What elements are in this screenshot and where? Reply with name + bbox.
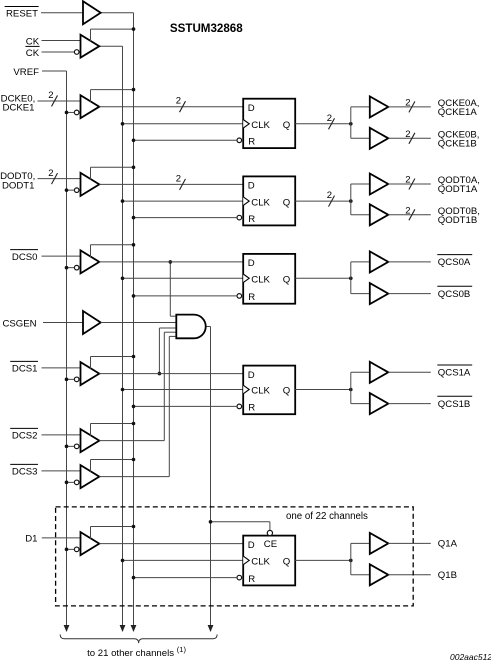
wire CK input — [42, 39, 81, 41]
wire D input to FF4 DCS1 register — [99, 373, 243, 375]
wire CSGEN buffer output to AND gate input 2 — [101, 322, 177, 324]
svg-text:QCKE1A: QCKE1A — [438, 107, 478, 118]
wire RESET input — [41, 12, 83, 14]
svg-text:CK: CK — [26, 48, 40, 59]
svg-text:D: D — [248, 103, 255, 114]
svg-text:CLK: CLK — [251, 275, 270, 286]
svg-text:D: D — [248, 370, 255, 381]
svg-text:2: 2 — [176, 96, 181, 107]
buffer DCS2 input receiver — [74, 429, 99, 452]
svg-text:CSGEN: CSGEN — [2, 318, 36, 329]
flip-flop FF3 DCS0 register — [237, 254, 295, 304]
svg-text:QODT1B: QODT1B — [438, 215, 477, 226]
wire CSGEN input — [43, 322, 83, 324]
svg-text:QCKE1B: QCKE1B — [438, 139, 477, 150]
label CSGEN — [2, 318, 36, 329]
wire VREF tap to DCS3 receiver — [65, 481, 75, 485]
wire QCS0A output — [388, 261, 431, 263]
wire DCKE input — [38, 100, 81, 102]
flip-flop FF5 data channel register — [237, 530, 295, 585]
buffer DCS1 input receiver — [74, 362, 99, 385]
buffer DCKE input receiver — [74, 95, 99, 118]
buffer D1 input receiver — [74, 532, 99, 555]
svg-text:QCS1B: QCS1B — [438, 399, 471, 410]
wire RESET tap to R of FF1 DCKE register — [132, 139, 237, 143]
buffer DODT input receiver — [74, 173, 99, 196]
svg-text:Q: Q — [283, 275, 290, 286]
label QCS1B output — [437, 396, 472, 410]
wire Q output of QCS1 register — [295, 388, 352, 392]
wire Q output of QCS0 register — [295, 277, 352, 281]
label QCS0B output — [437, 286, 472, 300]
wire QCKEA output — [388, 106, 431, 108]
wire DODT input — [38, 178, 81, 180]
wire DCS1 input — [42, 367, 81, 369]
label VREF — [13, 67, 39, 78]
wire RESET tap to DCKE receiver — [91, 88, 136, 102]
svg-text:2: 2 — [327, 113, 332, 124]
svg-text:Q1A: Q1A — [438, 539, 458, 550]
wire VREF tap to DCKE receiver — [65, 111, 75, 115]
wire VREF tap to D1 receiver — [65, 548, 75, 552]
svg-text:2: 2 — [405, 97, 410, 108]
bus-width slash 2 on DCKE register D line — [176, 96, 186, 113]
bus-width slash 2 on QODTA output — [405, 175, 415, 190]
svg-text:CE: CE — [264, 539, 277, 550]
svg-text:DCS3: DCS3 — [12, 467, 38, 478]
buffer QCS0A output driver — [370, 251, 389, 272]
wire QCKEB output — [388, 137, 431, 139]
buffer QCS1B output driver — [370, 393, 389, 414]
wire QCKE output branch — [351, 107, 370, 138]
wire RESET tap to DCS3 receiver — [91, 458, 136, 472]
svg-text:CLK: CLK — [251, 197, 270, 208]
wire AND gate output to CE of channel register — [209, 520, 270, 530]
wire DCS3 to AND gate input 5 — [99, 336, 176, 476]
svg-text:DCS0: DCS0 — [12, 252, 38, 263]
wire CLK tap to FF4 DCS1 register — [121, 388, 244, 392]
wire RESET tap to D1 receiver — [91, 525, 136, 539]
svg-text:Q: Q — [283, 197, 290, 208]
wire QODT output branch — [351, 184, 370, 215]
svg-text:CLK: CLK — [251, 386, 270, 397]
wire DCS1 to AND gate input 3 — [158, 328, 177, 375]
label to 21 other channels note — [87, 645, 186, 659]
svg-text:R: R — [248, 403, 255, 414]
wire RESET tap to DODT receiver — [91, 166, 136, 180]
wire RESET net (vertical bus) — [101, 13, 137, 632]
buffer QODTA output driver — [370, 174, 389, 195]
wire Q1B output — [388, 574, 431, 576]
label DCS0 — [10, 250, 38, 263]
bus-width slash 2 on QODT Q line — [327, 190, 335, 207]
buffer QCS0B output driver — [370, 283, 389, 304]
wire Q1 output branch — [351, 543, 370, 574]
svg-text:002aac512: 002aac512 — [450, 652, 491, 661]
svg-text:RESET: RESET — [6, 9, 38, 20]
label drawing code 002aac512 — [450, 652, 491, 661]
wire RESET tap to R of FF3 DCS0 register — [132, 294, 237, 298]
buffer Q1B output driver — [370, 564, 389, 585]
svg-text:D1: D1 — [25, 534, 37, 545]
svg-text:SSTUM32868: SSTUM32868 — [170, 22, 243, 35]
label one of 22 channels — [286, 511, 368, 522]
svg-text:Q: Q — [283, 557, 290, 568]
svg-text:CK: CK — [26, 36, 40, 47]
svg-text:D: D — [248, 258, 255, 269]
svg-text:R: R — [248, 214, 255, 225]
wire RESET tap to R of FF2 DODT register — [132, 216, 237, 220]
wire QODTA output — [388, 183, 431, 185]
svg-text:2: 2 — [405, 205, 410, 216]
wire gated chip-select net from AND gate (vertical bus) — [206, 327, 214, 633]
label QODT0A output — [438, 175, 480, 195]
label DCS1 — [10, 361, 38, 374]
buffer QCKEA output driver — [370, 96, 389, 117]
svg-text:Q1B: Q1B — [438, 570, 457, 581]
buffer U2 differential clock receiver — [74, 35, 99, 58]
flip-flop FF2 DODT register — [237, 176, 295, 225]
wire RESET tap to R of FF4 DCS1 register — [132, 405, 237, 409]
svg-text:Q: Q — [283, 386, 290, 397]
svg-text:DCS2: DCS2 — [12, 431, 38, 442]
wire D input to FF5 data channel register — [99, 543, 243, 545]
svg-text:QODT1A: QODT1A — [438, 184, 478, 195]
label QCKE0B output — [438, 129, 480, 149]
bus-width slash 2 on QCKEA output — [405, 97, 415, 112]
svg-text:VREF: VREF — [13, 67, 39, 78]
svg-text:QCS1A: QCS1A — [438, 368, 471, 379]
wire CK clock net (vertical bus) — [99, 46, 125, 632]
label DCKE — [1, 94, 36, 114]
wire CLK tap to FF5 data channel register — [121, 559, 244, 563]
bus-width slash 2 on QODTB output — [405, 205, 415, 220]
wire D input to FF3 DCS0 register — [99, 261, 243, 263]
label QCS0A output — [437, 255, 472, 269]
svg-text:Q: Q — [283, 120, 290, 131]
brace for other channels — [60, 635, 217, 644]
svg-text:2: 2 — [48, 168, 53, 179]
svg-text:R: R — [248, 292, 255, 303]
svg-text:DCKE1: DCKE1 — [3, 103, 35, 114]
svg-text:DODT1: DODT1 — [2, 180, 35, 191]
wire VREF tap to DCS0 receiver — [65, 266, 75, 270]
label Q1B output — [438, 570, 457, 581]
svg-text:R: R — [248, 574, 255, 585]
buffer DCS3 input receiver — [74, 465, 99, 488]
buffer QODTB output driver — [370, 204, 389, 225]
flip-flop FF1 DCKE register — [237, 99, 295, 148]
wire Q output of QODT register — [295, 199, 352, 203]
wire VREF tap to DODT receiver — [65, 188, 75, 192]
wire RESET tap to DCS1 receiver — [91, 355, 136, 369]
svg-text:2: 2 — [405, 129, 410, 140]
svg-text:R: R — [248, 137, 255, 148]
wire VREF tap to DCS1 receiver — [65, 378, 75, 382]
svg-text:2: 2 — [176, 173, 181, 184]
wire QCS0 output branch — [351, 262, 370, 294]
wire DCS0 to AND gate input 1 — [169, 260, 177, 316]
bus-width slash 2 on DCKE input — [48, 90, 57, 106]
svg-text:QCS0A: QCS0A — [438, 257, 471, 268]
svg-text:(1): (1) — [177, 645, 187, 654]
wire RESET tap to R of FF5 data channel register — [132, 576, 237, 580]
label CK (inverted) — [25, 46, 39, 58]
wire DCS2 input — [42, 434, 81, 436]
wire CLK tap to FF2 DODT register — [121, 199, 244, 203]
AND gate U3 chip-select combiner — [176, 315, 205, 339]
wire QCS1B output — [388, 403, 431, 405]
svg-text:QCS0B: QCS0B — [438, 289, 471, 300]
wire QCS1A output — [388, 371, 431, 373]
wire CK inverted input — [42, 51, 75, 53]
wire QCS1 output branch — [351, 372, 370, 403]
label QCS1A output — [437, 365, 472, 379]
bus-width slash 2 on QCKE Q line — [327, 113, 335, 130]
bus-width slash 2 on DODT register D line — [176, 173, 186, 190]
wire RESET tap to DCS0 receiver — [91, 243, 136, 257]
wire VREF net (vertical bus) — [42, 71, 69, 632]
svg-text:D: D — [248, 181, 255, 192]
wire DCS3 input — [42, 470, 81, 472]
wire QCS0B output — [388, 293, 431, 295]
svg-text:2: 2 — [327, 190, 332, 201]
bus-width slash 2 on DODT input — [48, 168, 57, 184]
wire D input to FF2 DODT register — [99, 183, 243, 185]
wire Q1A output — [388, 542, 431, 544]
wire CLK tap to FF1 DCKE register — [121, 122, 244, 126]
label RESET (active low) — [5, 7, 39, 20]
label DCS2 — [10, 428, 38, 441]
svg-text:2: 2 — [48, 90, 53, 101]
label D1 — [25, 534, 37, 545]
wire Q output of Q1 register — [295, 559, 352, 563]
buffer CSGEN input buffer — [83, 311, 101, 334]
flip-flop FF4 DCS1 register — [237, 366, 295, 415]
label QCKE0A output — [438, 98, 480, 118]
wire QODTB output — [388, 214, 431, 216]
wire DCS0 input — [42, 255, 81, 257]
wire D input to FF1 DCKE register — [99, 106, 243, 108]
label DCS3 — [10, 464, 38, 477]
svg-text:CLK: CLK — [251, 120, 270, 131]
wire DCS2 to AND gate input 4 — [99, 332, 176, 440]
label DODT — [0, 171, 35, 191]
wire CLK tap to FF3 DCS0 register — [121, 277, 244, 281]
wire Q output of QCKE register — [295, 122, 352, 126]
buffer QCS1A output driver — [370, 362, 389, 383]
label QODT0B output — [438, 206, 480, 226]
title label SSTUM32868 — [170, 22, 243, 35]
buffer U1 RESET input buffer — [83, 1, 101, 24]
wire RESET tap to clock buffer — [91, 27, 136, 41]
wire VREF tap to DCS2 receiver — [65, 445, 75, 449]
bus-width slash 2 on QCKEB output — [405, 129, 415, 144]
channel boundary box (one of 22 channels) — [56, 507, 414, 606]
wire D1 input — [42, 537, 81, 539]
buffer Q1A output driver — [370, 533, 389, 554]
svg-text:DCS1: DCS1 — [12, 364, 38, 375]
svg-text:D: D — [248, 540, 255, 551]
svg-text:one of 22 channels: one of 22 channels — [286, 511, 368, 522]
label CK — [26, 36, 40, 47]
wire RESET tap to DCS2 receiver — [91, 422, 136, 436]
svg-text:CLK: CLK — [251, 557, 270, 568]
buffer QCKEB output driver — [370, 128, 389, 149]
svg-text:2: 2 — [405, 175, 410, 186]
label Q1A output — [438, 539, 458, 550]
svg-text:to 21 other channels: to 21 other channels — [87, 648, 174, 659]
buffer DCS0 input receiver — [74, 250, 99, 273]
